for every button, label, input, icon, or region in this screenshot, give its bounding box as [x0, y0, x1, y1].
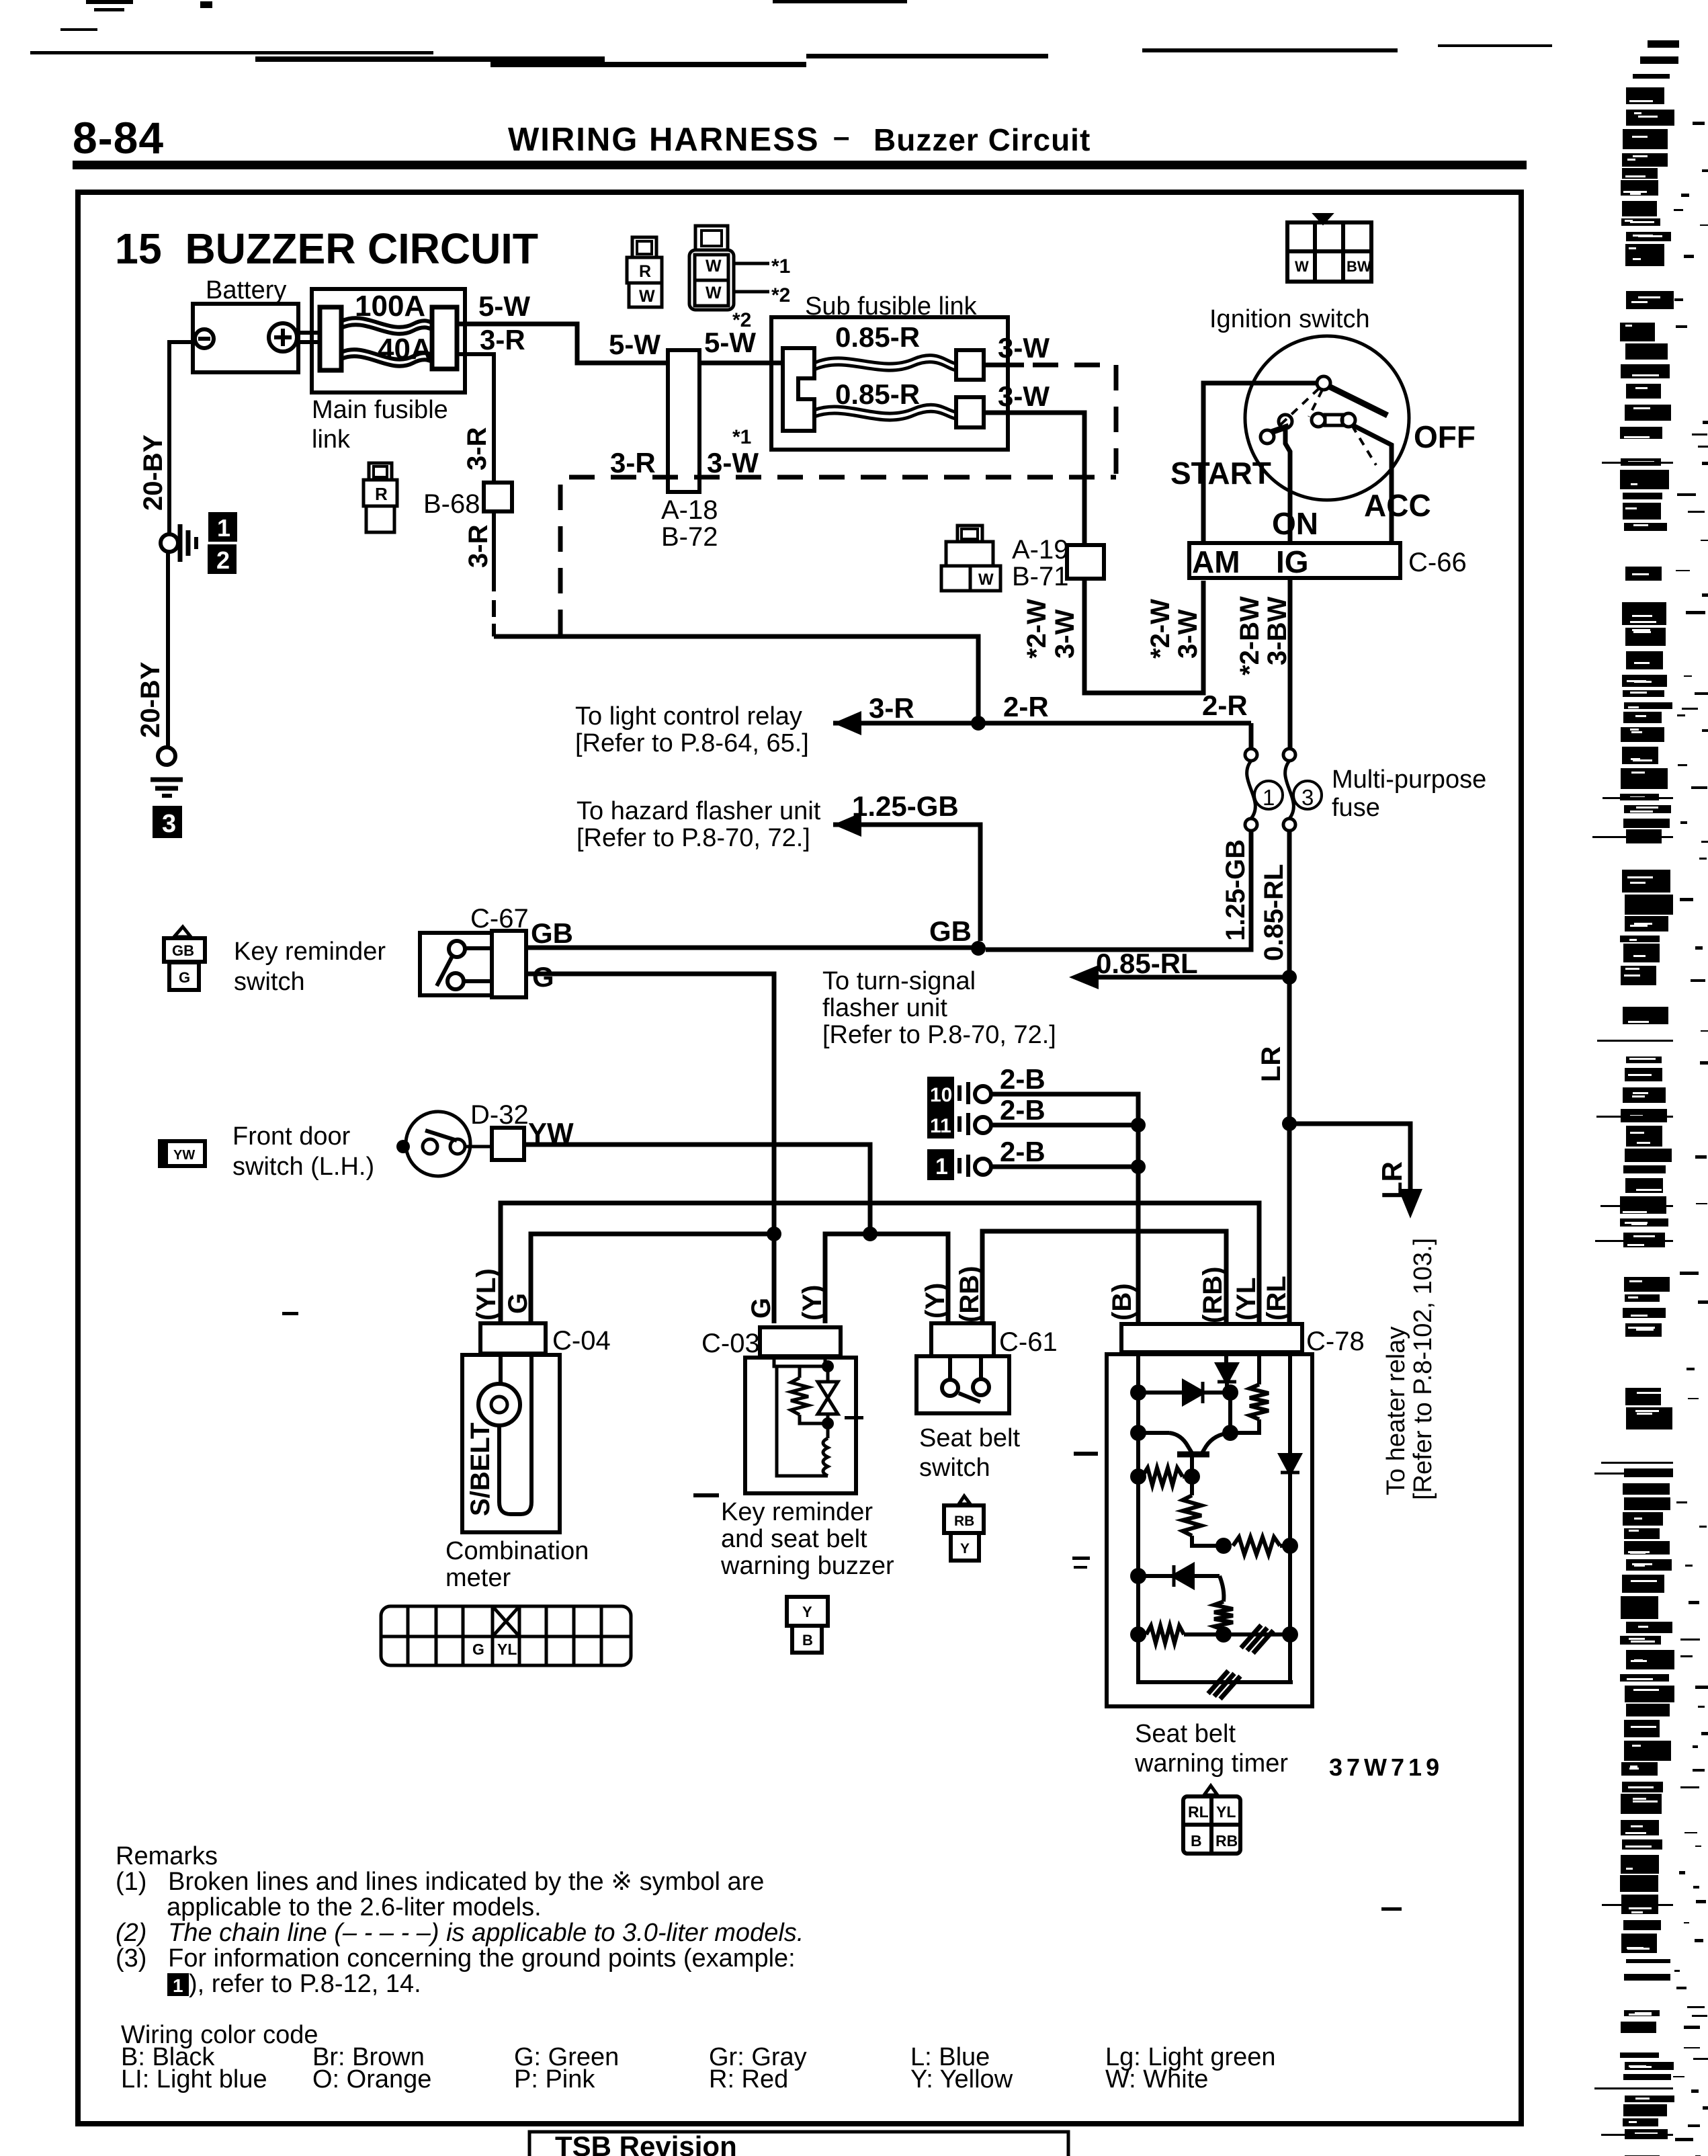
svg-text:G: G — [179, 969, 190, 986]
svg-text:2-B: 2-B — [1000, 1063, 1045, 1095]
svg-text:0.85-R: 0.85-R — [835, 378, 920, 410]
svg-text:START: START — [1170, 456, 1271, 491]
svg-text:1: 1 — [935, 1154, 948, 1179]
svg-text:A-18: A-18 — [661, 495, 718, 525]
svg-text:fuse: fuse — [1332, 794, 1380, 822]
svg-text:B-68: B-68 — [423, 489, 480, 519]
svg-text:To turn-signal: To turn-signal — [822, 967, 976, 995]
fuse wires 0.85-R — [814, 356, 956, 364]
svg-text:3-W: 3-W — [707, 447, 759, 479]
connector icon R (B-68) — [364, 463, 397, 532]
svg-text:meter: meter — [445, 1564, 511, 1592]
svg-text:2-B: 2-B — [1000, 1136, 1045, 1167]
LR wire down — [1287, 977, 1292, 1323]
IG wire down — [1288, 578, 1293, 749]
svg-text:O: Orange: O: Orange — [312, 2065, 431, 2093]
wire node R1 — [1228, 1387, 1232, 1433]
svg-text:P: Pink: P: Pink — [514, 2065, 595, 2093]
svg-text:D-32: D-32 — [470, 1100, 529, 1130]
svg-text:3-R: 3-R — [869, 692, 914, 724]
svg-text:(RL: (RL — [1262, 1276, 1291, 1321]
svg-text:Multi-purpose: Multi-purpose — [1332, 765, 1486, 794]
svg-text:G: G — [503, 1293, 533, 1314]
svg-text:G: G — [532, 961, 554, 993]
C-shaped connector — [783, 348, 814, 431]
main fusible link — [312, 289, 465, 392]
svg-text:C-78: C-78 — [1306, 1327, 1365, 1356]
connector icon W/W (*1 *2) — [689, 226, 734, 310]
svg-text:*2: *2 — [732, 309, 751, 331]
svg-text:LI: Light blue: LI: Light blue — [121, 2065, 267, 2093]
B-68 connector square — [484, 483, 512, 511]
svg-text:and seat belt: and seat belt — [721, 1525, 867, 1553]
svg-text:RB: RB — [1215, 1832, 1238, 1850]
Y/B connector icon — [787, 1597, 828, 1626]
svg-text:Key reminder: Key reminder — [721, 1498, 873, 1526]
wire 3-R to light control relay — [494, 636, 978, 723]
svg-text:W: W — [1295, 258, 1309, 275]
svg-text:flasher unit: flasher unit — [822, 994, 947, 1022]
scan specks — [282, 1312, 1402, 1911]
GB wire — [526, 946, 978, 950]
svg-text:LR: LR — [1376, 1161, 1408, 1199]
svg-text:Combination: Combination — [445, 1537, 589, 1565]
wire row1 — [1138, 1391, 1230, 1395]
switch internals — [1317, 376, 1330, 390]
svg-text:YL: YL — [497, 1641, 517, 1658]
scan noise right edge — [1648, 40, 1679, 48]
svg-text:3-BW: 3-BW — [1263, 597, 1292, 665]
wire 1.25-GB to hazard flasher — [833, 825, 980, 941]
ignition wires to C-66 — [1203, 383, 1318, 543]
svg-text:C-66: C-66 — [1408, 548, 1467, 577]
svg-text:C-04: C-04 — [552, 1326, 611, 1356]
resistor R3 — [1183, 1495, 1201, 1536]
transistor Q1 — [1138, 1431, 1169, 1435]
svg-text:Remarks: Remarks — [116, 1842, 218, 1870]
svg-text:3-W: 3-W — [998, 332, 1050, 364]
svg-text:YL: YL — [1216, 1803, 1236, 1821]
resistor R2 — [1142, 1468, 1183, 1485]
scan noise top — [30, 0, 1552, 67]
0.85-RL wire down — [1287, 831, 1292, 977]
svg-text:Buzzer Circuit: Buzzer Circuit — [873, 122, 1091, 157]
svg-text:0.85-R: 0.85-R — [835, 321, 920, 353]
svg-text:R: R — [639, 262, 651, 281]
svg-text:GB: GB — [929, 915, 972, 947]
wire 5-W — [457, 324, 785, 363]
wire timer right rail (RL) — [1288, 1352, 1292, 1682]
LR branch to heater relay — [1289, 1124, 1410, 1203]
svg-text:Seat belt: Seat belt — [919, 1424, 1020, 1452]
svg-text:(Y): (Y) — [798, 1285, 827, 1321]
svg-text:AM: AM — [1192, 544, 1240, 579]
svg-text:20-BY: 20-BY — [138, 434, 168, 511]
TSB revision box — [529, 2132, 1068, 2156]
svg-text:15 BUZZER CIRCUIT: 15 BUZZER CIRCUIT — [115, 224, 538, 273]
diagram frame — [78, 192, 1521, 2124]
svg-text:B-72: B-72 — [661, 522, 718, 552]
connector A-18 B-72 — [668, 350, 699, 492]
svg-text:Seat belt: Seat belt — [1135, 1720, 1236, 1748]
svg-text:0.85-RL: 0.85-RL — [1096, 948, 1198, 979]
svg-text:switch (L.H.): switch (L.H.) — [232, 1153, 374, 1181]
svg-text:YW: YW — [173, 1148, 195, 1163]
wire battery minus to ground — [169, 342, 195, 534]
svg-text:link: link — [312, 425, 351, 454]
svg-text:applicable to the 2.6-liter mo: applicable to the 2.6-liter models. — [167, 1893, 542, 1921]
svg-text:–: – — [833, 120, 849, 153]
G wire — [526, 974, 774, 1323]
svg-text:OFF: OFF — [1414, 419, 1476, 454]
svg-text:Y: Y — [960, 1541, 970, 1557]
svg-text:B: B — [1191, 1832, 1202, 1850]
svg-text:R: R — [375, 484, 388, 504]
wire 0.85-RL to turn signal flasher — [1080, 975, 1289, 980]
svg-text:(3) For information concerni: (3) For information concerning the groun… — [116, 1944, 796, 1973]
svg-text:RL: RL — [1188, 1803, 1209, 1821]
svg-text:2-R: 2-R — [1202, 690, 1248, 721]
svg-text:G: G — [472, 1641, 484, 1658]
svg-text:C-03: C-03 — [701, 1329, 760, 1358]
ground pins 10 11 1 — [927, 1077, 954, 1108]
svg-text:5-W: 5-W — [704, 327, 756, 358]
svg-text:10: 10 — [930, 1084, 952, 1106]
wire A-19 down to AM — [1084, 579, 1203, 693]
svg-text:ACC: ACC — [1364, 488, 1431, 523]
svg-text:3: 3 — [162, 810, 176, 838]
svg-text:(RB): (RB) — [955, 1266, 984, 1323]
svg-text:(Y): (Y) — [921, 1283, 950, 1319]
svg-text:W: W — [706, 284, 722, 302]
1.25-GB wire down-left — [986, 831, 1251, 950]
svg-text:GB: GB — [172, 942, 194, 959]
wire YL pin stub — [1257, 1352, 1261, 1384]
svg-text:*1: *1 — [771, 255, 790, 278]
svg-text:20-BY: 20-BY — [136, 661, 165, 738]
svg-text:Y: Y — [802, 1604, 812, 1620]
multi-purpose fuse — [1249, 723, 1254, 749]
svg-text:[Refer to P.8-70, 72.]: [Refer to P.8-70, 72.] — [577, 824, 810, 852]
svg-text:C-61: C-61 — [999, 1327, 1058, 1357]
svg-text:(1) Broken lines and lines i: (1) Broken lines and lines indicated by … — [116, 1868, 764, 1896]
diode D2 — [1218, 1364, 1236, 1382]
svg-text:Main fusible: Main fusible — [312, 396, 448, 424]
svg-text:IG: IG — [1276, 544, 1309, 579]
svg-text:37W719: 37W719 — [1329, 1753, 1443, 1781]
svg-text:*2-W: *2-W — [1146, 599, 1175, 659]
svg-text:W: W — [639, 287, 655, 306]
svg-text:LR: LR — [1256, 1046, 1286, 1082]
svg-text:1.25-GB: 1.25-GB — [852, 790, 959, 822]
RB/Y connector icon — [959, 1496, 970, 1504]
svg-text:B-71: B-71 — [1012, 562, 1069, 591]
svg-text:Ignition switch: Ignition switch — [1209, 305, 1370, 333]
ground point 3 — [158, 747, 175, 765]
svg-text:1: 1 — [173, 1975, 183, 1996]
svg-text:8-84: 8-84 — [73, 113, 164, 163]
svg-text:GB: GB — [531, 917, 573, 949]
svg-text:2-B: 2-B — [1000, 1094, 1045, 1126]
svg-text:S/BELT: S/BELT — [466, 1423, 495, 1516]
diode D4 + transistor Q2 — [1138, 1574, 1220, 1578]
svg-text:3: 3 — [1301, 785, 1314, 810]
svg-text:W: White: W: White — [1105, 2065, 1208, 2093]
bus G — [531, 1234, 774, 1323]
svg-text:[Refer to P.8-64, 65.]: [Refer to P.8-64, 65.] — [575, 729, 809, 757]
svg-text:WIRING HARNESS: WIRING HARNESS — [508, 122, 820, 158]
resistor R6 + row6 wire — [1138, 1632, 1146, 1636]
svg-text:3-R: 3-R — [480, 324, 525, 356]
svg-text:3-W: 3-W — [1173, 609, 1203, 659]
wire RB pin stub — [1224, 1352, 1228, 1364]
svg-text:(2) The chain line (– - – -: (2) The chain line (– - – - –) is applic… — [116, 1919, 804, 1947]
svg-text:1: 1 — [1263, 785, 1275, 810]
svg-text:100A: 100A — [355, 290, 425, 323]
svg-text:A-19: A-19 — [1012, 535, 1069, 565]
wire timer left rail (B) — [1138, 1352, 1293, 1682]
svg-text:(YL): (YL) — [472, 1268, 501, 1321]
svg-text:RB: RB — [954, 1514, 974, 1529]
svg-text:warning buzzer: warning buzzer — [720, 1552, 894, 1580]
svg-text:5-W: 5-W — [478, 290, 530, 322]
svg-text:ON: ON — [1272, 506, 1318, 541]
svg-text:3-R: 3-R — [462, 427, 492, 470]
svg-text:Front door: Front door — [232, 1122, 351, 1151]
svg-text:Battery: Battery — [206, 276, 286, 304]
key reminder icon — [174, 927, 191, 937]
resistor R4 — [1233, 1537, 1280, 1554]
svg-text:TSB Revision: TSB Revision — [555, 2130, 737, 2156]
connector A-19 B-71 — [1067, 545, 1104, 579]
svg-text:[Refer to P.8-102, 103.]: [Refer to P.8-102, 103.] — [1409, 1238, 1437, 1500]
connector C-66 AM IG — [1189, 543, 1400, 578]
svg-text:switch: switch — [234, 968, 305, 996]
svg-text:3-R: 3-R — [464, 524, 493, 568]
svg-text:R: Red: R: Red — [709, 2065, 788, 2093]
ground point 1/2 — [161, 534, 178, 552]
resistor R5 — [1214, 1602, 1233, 1630]
dashed chain line rect — [560, 365, 1116, 635]
diode D1 — [1184, 1382, 1203, 1403]
ignition connector icon 3x2 — [1287, 215, 1371, 282]
svg-text:Key reminder: Key reminder — [234, 938, 386, 966]
wire 20-BY down — [166, 552, 170, 747]
svg-text:0.85-RL: 0.85-RL — [1259, 864, 1289, 962]
bus YW — [825, 1234, 948, 1323]
svg-text:G: G — [746, 1298, 776, 1319]
wire 3-R down through B-68 — [457, 354, 494, 591]
svg-text:2-R: 2-R — [1003, 691, 1049, 722]
svg-text:*2-BW: *2-BW — [1235, 596, 1265, 675]
svg-text:BW: BW — [1347, 258, 1371, 275]
2-B wires — [991, 1094, 1138, 1323]
RL YL B RB connector icon — [1204, 1786, 1218, 1795]
battery — [193, 304, 320, 372]
front door switch D-32 — [160, 1141, 205, 1166]
svg-text:(B): (B) — [1107, 1283, 1137, 1321]
svg-text:To hazard flasher unit: To hazard flasher unit — [577, 797, 821, 825]
svg-text:*2: *2 — [771, 284, 790, 306]
wires 3-W from sub link — [984, 363, 1024, 368]
svg-text:To light control relay: To light control relay — [575, 702, 802, 731]
svg-text:B: B — [802, 1632, 813, 1649]
svg-text:5-W: 5-W — [609, 329, 660, 360]
svg-text:2: 2 — [216, 546, 230, 574]
svg-text:switch: switch — [919, 1454, 990, 1482]
svg-text:(YL: (YL — [1232, 1278, 1261, 1321]
svg-text:W: W — [978, 571, 994, 589]
svg-text:[Refer to P.8-70, 72.]: [Refer to P.8-70, 72.] — [822, 1021, 1056, 1049]
svg-text:40A: 40A — [378, 333, 432, 366]
resistor R1 — [1250, 1384, 1269, 1419]
svg-text:W: W — [706, 257, 722, 276]
svg-text:*1: *1 — [732, 426, 751, 448]
svg-text:3-R: 3-R — [610, 447, 656, 479]
svg-text:Y: Yellow: Y: Yellow — [910, 2065, 1013, 2093]
svg-text:1.25-GB: 1.25-GB — [1221, 839, 1250, 941]
bus RB — [982, 1231, 1226, 1323]
bus YL — [501, 1203, 1259, 1323]
svg-text:1: 1 — [217, 514, 230, 542]
svg-text:To heater relay: To heater relay — [1382, 1327, 1410, 1495]
svg-text:warning timer: warning timer — [1134, 1749, 1288, 1778]
svg-text:*2-W: *2-W — [1022, 599, 1052, 659]
meter connector grid — [381, 1606, 631, 1665]
connector icon R/W — [627, 237, 662, 307]
YW wire — [524, 1145, 870, 1234]
svg-text:3-W: 3-W — [998, 380, 1050, 412]
diode D3 — [1281, 1455, 1299, 1473]
svg-text:(RB): (RB) — [1198, 1267, 1228, 1323]
svg-text:), refer to P.8-12, 14.: ), refer to P.8-12, 14. — [189, 1970, 421, 1998]
svg-text:3-W: 3-W — [1050, 609, 1080, 659]
connector icon W — [941, 526, 1000, 591]
svg-text:11: 11 — [930, 1115, 951, 1137]
